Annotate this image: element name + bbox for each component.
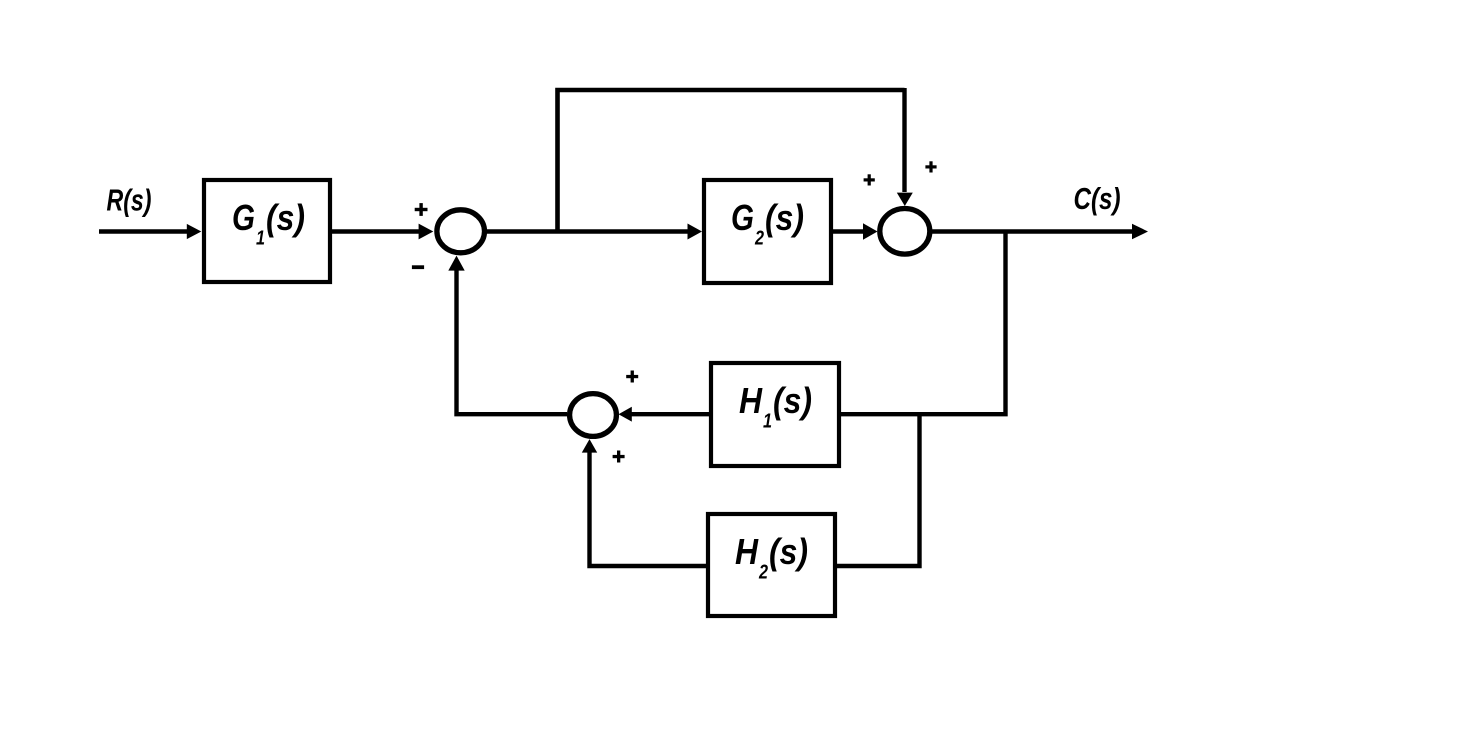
wire G2 to summer S2 — [833, 223, 878, 240]
svg-text:1: 1 — [763, 411, 772, 433]
svg-text:(s): (s) — [765, 197, 804, 238]
svg-text:R(s): R(s) — [107, 183, 152, 218]
label H1(s) — [739, 380, 812, 433]
summing junction S1 — [437, 210, 485, 253]
label H2(s) — [735, 531, 808, 584]
wire output C(s) — [932, 224, 1148, 240]
minus sign at summer S1 — [412, 265, 424, 269]
svg-text:(s): (s) — [773, 380, 812, 421]
label G1(s) — [232, 197, 305, 250]
plus sign below-right of S3 — [613, 451, 625, 463]
wire H1 to summer S3 — [619, 407, 712, 422]
wire H2 left and up into S3 — [582, 439, 708, 566]
block H1 — [711, 363, 839, 466]
wire branch down from H1 row to H2 row — [837, 414, 920, 566]
svg-text:2: 2 — [754, 228, 764, 250]
plus sign right of S2 top arrow — [925, 161, 936, 172]
block H2 — [708, 514, 835, 616]
wire takeoff from output down to H1 row — [841, 232, 1006, 415]
plus sign above-right of S3 — [626, 371, 638, 383]
svg-text:G: G — [731, 197, 754, 238]
wire S1 to G2 with takeoff junction — [487, 224, 702, 240]
svg-text:H: H — [735, 531, 759, 572]
svg-text:G: G — [232, 197, 255, 238]
plus sign left of S2 top arrow — [864, 174, 875, 185]
svg-text:C(s): C(s) — [1074, 181, 1121, 216]
svg-text:(s): (s) — [266, 197, 305, 238]
wire feedforward up and across top — [558, 90, 905, 232]
summing junction S3 — [570, 394, 617, 437]
wire down into summer S2 — [897, 88, 913, 206]
summing junction S2 — [880, 209, 930, 255]
svg-text:H: H — [739, 380, 763, 421]
label G2(s) — [731, 197, 804, 250]
plus sign at summer S1 — [415, 203, 428, 216]
block G2 — [704, 180, 831, 283]
wire S3 left and up into S1 (negative feedback) — [448, 256, 567, 415]
wire input arrow into G1 — [99, 224, 201, 239]
wire G1 to summer S1 — [332, 224, 433, 240]
svg-text:(s): (s) — [769, 531, 808, 572]
block G1 — [204, 180, 330, 282]
svg-text:2: 2 — [758, 562, 768, 584]
svg-text:1: 1 — [256, 228, 265, 250]
